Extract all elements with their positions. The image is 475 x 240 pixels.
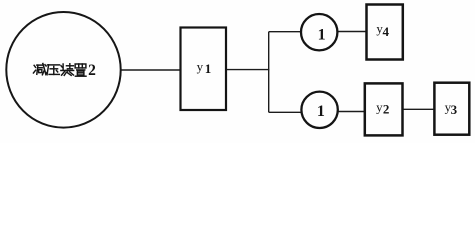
svg-text:1: 1: [317, 103, 325, 120]
svg-text:y: y: [197, 59, 204, 74]
svg-text:2: 2: [88, 62, 96, 79]
svg-text:3: 3: [451, 102, 458, 117]
svg-text:1: 1: [318, 26, 326, 43]
svg-text:2: 2: [383, 102, 390, 117]
svg-text:1: 1: [205, 61, 212, 76]
svg-text:4: 4: [383, 24, 390, 39]
